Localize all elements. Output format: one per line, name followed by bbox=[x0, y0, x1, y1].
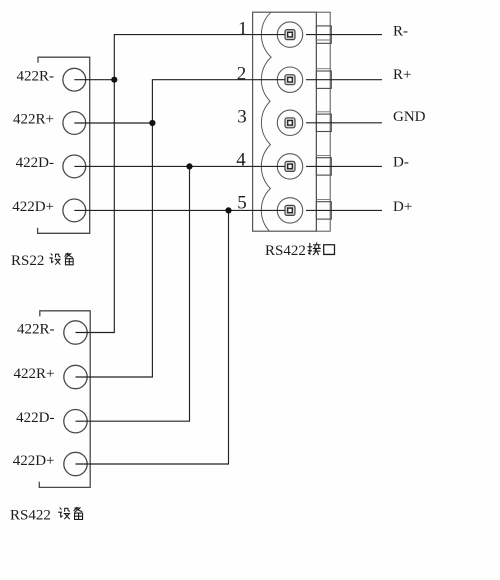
svg-text:RS422: RS422 bbox=[10, 507, 51, 523]
screw terminal 2 bbox=[277, 67, 302, 92]
wire pin5 to upper 422D+ bbox=[74, 209, 285, 211]
svg-text:GND: GND bbox=[393, 109, 426, 125]
svg-text:RS422: RS422 bbox=[265, 243, 306, 259]
terminal circle 422R- (lower box) bbox=[64, 321, 87, 344]
wire branch upper 422R+ bbox=[74, 122, 152, 124]
junction node v3 bbox=[186, 163, 192, 169]
caption glyph 设 (lower) bbox=[59, 508, 70, 519]
svg-text:422D+: 422D+ bbox=[13, 453, 55, 469]
connector body bbox=[253, 12, 317, 231]
wire pin1 to lower 422R- bbox=[76, 35, 286, 333]
clamp pad 3 bbox=[316, 114, 331, 131]
wire stub D- bbox=[306, 165, 382, 167]
caption glyph 设 bbox=[50, 254, 60, 265]
svg-text:4: 4 bbox=[236, 150, 246, 171]
clamp pad 5 bbox=[316, 202, 331, 219]
wire stub GND bbox=[306, 122, 382, 124]
svg-text:422R-: 422R- bbox=[17, 322, 55, 338]
svg-text:3: 3 bbox=[237, 107, 247, 128]
wire stub R+ bbox=[306, 79, 382, 81]
svg-text:422R-: 422R- bbox=[17, 68, 55, 84]
svg-text:D-: D- bbox=[393, 155, 409, 171]
caption glyph 备 (lower) bbox=[74, 507, 83, 519]
caption glyph 备 bbox=[65, 253, 73, 265]
caption glyph 接 bbox=[308, 243, 320, 255]
svg-text:1: 1 bbox=[238, 19, 248, 40]
svg-text:2: 2 bbox=[237, 63, 247, 84]
svg-text:D+: D+ bbox=[393, 199, 412, 215]
caption glyph 口 bbox=[324, 245, 335, 255]
screw terminal 3 bbox=[277, 110, 302, 135]
strip divider lines bbox=[316, 40, 330, 199]
svg-text:422D-: 422D- bbox=[16, 410, 54, 426]
screw terminal 5 bbox=[277, 198, 302, 223]
terminal circle 422R- (upper box) bbox=[63, 68, 86, 91]
junction node v4 bbox=[225, 207, 231, 213]
connector right strip bbox=[316, 12, 330, 231]
junction node v2 bbox=[149, 120, 155, 126]
terminal circle 422D- (lower box) bbox=[64, 410, 87, 433]
terminal circle 422D+ (upper box) bbox=[63, 199, 86, 222]
screw terminal 4 bbox=[277, 154, 302, 179]
wire pin2 to lower 422R+ bbox=[76, 80, 286, 377]
terminal circle 422R+ (upper box) bbox=[63, 112, 86, 135]
box RS22 device outline bbox=[38, 57, 90, 233]
clamp pad 4 bbox=[316, 158, 331, 175]
wire stub D+ bbox=[306, 209, 382, 211]
box RS422 device outline bbox=[39, 311, 90, 488]
wire branch lower 422D+ bbox=[76, 210, 229, 464]
clamp pad 1 bbox=[316, 26, 331, 43]
connector scallop profile bbox=[261, 12, 271, 231]
terminal circle 422R+ (lower box) bbox=[64, 365, 87, 388]
wire stub R- bbox=[306, 34, 382, 36]
svg-text:R+: R+ bbox=[393, 67, 411, 83]
svg-text:422D+: 422D+ bbox=[12, 199, 54, 215]
terminal circle 422D+ (lower box) bbox=[64, 452, 87, 475]
svg-text:R-: R- bbox=[393, 23, 408, 39]
svg-text:422D-: 422D- bbox=[16, 155, 54, 171]
terminal circle 422D- (upper box) bbox=[63, 155, 86, 178]
screw terminal 1 bbox=[277, 22, 302, 47]
svg-text:RS22: RS22 bbox=[11, 253, 44, 269]
wire pin4 to upper 422D- bbox=[74, 165, 285, 167]
wire branch upper 422R- bbox=[74, 79, 114, 81]
svg-text:422R+: 422R+ bbox=[13, 112, 54, 128]
clamp pad 2 bbox=[316, 71, 331, 88]
junction node v1 bbox=[111, 77, 117, 83]
wire branch lower 422D- bbox=[76, 166, 190, 421]
svg-text:422R+: 422R+ bbox=[14, 366, 55, 382]
